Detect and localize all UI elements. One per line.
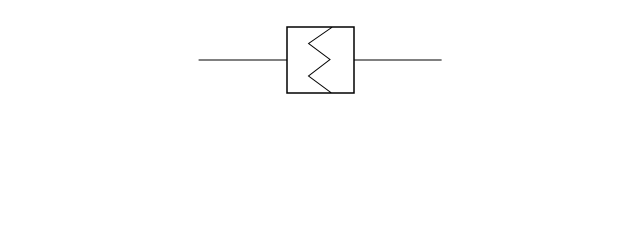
component body rectangle (protective device) bbox=[287, 27, 354, 93]
wire left lead bbox=[199, 59, 287, 61]
wire right lead bbox=[354, 59, 442, 61]
zigzag fuse element bbox=[309, 27, 333, 93]
